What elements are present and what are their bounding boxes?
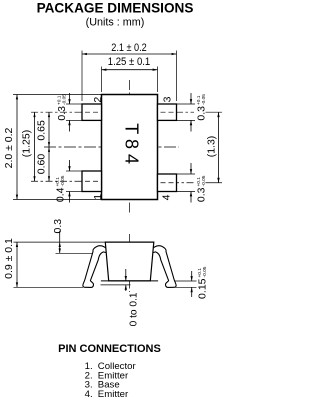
svg-text:-0.05: -0.05 <box>60 175 66 186</box>
dim 0.3 side lines <box>59 231 61 254</box>
svg-text:-0.05: -0.05 <box>202 266 208 277</box>
dim 0.3 pin2 lines <box>66 103 82 105</box>
svg-text:0.3: 0.3 <box>52 219 64 234</box>
dim 0.15 text <box>196 266 208 299</box>
dim 0.15 lines <box>175 280 197 282</box>
dim 0.3 pin4 text <box>196 175 208 202</box>
dim 0.9 line <box>16 242 18 287</box>
dim 2.0 ext bottom <box>13 199 102 201</box>
svg-text:3: 3 <box>162 96 174 102</box>
dim 2.1 ext left <box>81 51 83 102</box>
svg-text:(1.3): (1.3) <box>206 136 218 158</box>
svg-text:2: 2 <box>92 97 104 103</box>
pin2 center dash <box>85 111 99 113</box>
svg-text:-0.05: -0.05 <box>201 175 207 186</box>
pin1 center dash <box>85 180 99 182</box>
svg-text:2.0 ± 0.2: 2.0 ± 0.2 <box>3 127 15 168</box>
svg-text:-0.05: -0.05 <box>201 94 207 105</box>
dim 0.3 pin3 text <box>196 94 208 121</box>
dim 1.25 ext left <box>101 67 103 93</box>
pin2-pin3 centerline <box>31 111 194 113</box>
svg-text:0.60: 0.60 <box>36 154 48 175</box>
svg-text:PACKAGE DIMENSIONS: PACKAGE DIMENSIONS <box>37 0 194 15</box>
svg-text:0 to 0.1: 0 to 0.1 <box>129 292 140 326</box>
pin4 centerline <box>158 182 195 184</box>
dim 1.25 ext right <box>157 67 159 93</box>
side view centerline <box>129 234 131 292</box>
pin3 center dash <box>161 111 174 113</box>
package body outline <box>102 95 158 200</box>
dim 0.4 pin1 text <box>55 175 67 202</box>
dim (1.3) ext top <box>206 111 223 113</box>
pin 4 pad <box>158 174 177 192</box>
seating plane line left <box>14 286 84 288</box>
vertical centerline top view <box>129 80 131 213</box>
body top ext line <box>14 241 106 243</box>
side view group <box>3 219 208 327</box>
lead right (side view) <box>150 246 176 288</box>
horizontal centerline top view <box>44 146 179 148</box>
svg-text:2.1 ± 0.2: 2.1 ± 0.2 <box>111 42 147 54</box>
svg-text:0.3: 0.3 <box>56 106 68 121</box>
dim (1.3) line <box>218 112 220 183</box>
dim 2.1 line <box>82 53 177 55</box>
svg-text:0.9 ± 0.1: 0.9 ± 0.1 <box>3 238 15 279</box>
pin 1 pad <box>82 171 102 192</box>
svg-text:1.25 ± 0.1: 1.25 ± 0.1 <box>108 56 151 68</box>
svg-text:Emitter: Emitter <box>98 389 129 400</box>
svg-text:0.3: 0.3 <box>196 187 208 202</box>
svg-text:-0.05: -0.05 <box>62 94 68 105</box>
dim 0.65 line <box>48 112 50 147</box>
dim 2.1 ext right <box>176 51 178 102</box>
svg-text:T 8 4: T 8 4 <box>121 123 141 164</box>
dim 0.3 pin2 text <box>56 94 68 121</box>
svg-text:0.3: 0.3 <box>196 106 208 121</box>
dim 1.25 line <box>102 69 158 71</box>
side body bottom line <box>101 280 158 282</box>
lead left (side view) <box>83 246 109 288</box>
dim 0to0.1 lines <box>101 284 131 286</box>
svg-text:0.65: 0.65 <box>36 120 48 141</box>
pin 3 pad <box>158 104 177 120</box>
pin1 centerline <box>31 180 102 182</box>
svg-text:0.15: 0.15 <box>196 278 208 299</box>
dim 0.4 pin1 lines <box>66 170 82 172</box>
dim (1.3) ext bottom <box>206 182 223 184</box>
dim 0.60 line <box>48 147 50 181</box>
svg-text:4: 4 <box>161 194 173 200</box>
lead top ext line <box>56 252 94 254</box>
pin4 center dash <box>161 182 174 184</box>
svg-text:4.: 4. <box>85 389 93 400</box>
dim 0.3 pin3 lines <box>177 103 196 105</box>
dim (1.25) line <box>34 112 36 181</box>
side body outline <box>105 242 154 281</box>
dim 2.0 line <box>16 95 18 200</box>
svg-text:1: 1 <box>92 194 104 200</box>
svg-text:PIN CONNECTIONS: PIN CONNECTIONS <box>58 343 161 355</box>
dim 0.3 pin4 lines <box>177 173 196 175</box>
dim 2.0 ext top <box>13 94 102 96</box>
svg-text:0.4: 0.4 <box>55 187 67 202</box>
svg-text:(1.25): (1.25) <box>21 130 33 157</box>
top view group <box>3 42 222 213</box>
pin 2 pad <box>82 104 102 120</box>
svg-text:(Units : mm): (Units : mm) <box>86 16 145 28</box>
